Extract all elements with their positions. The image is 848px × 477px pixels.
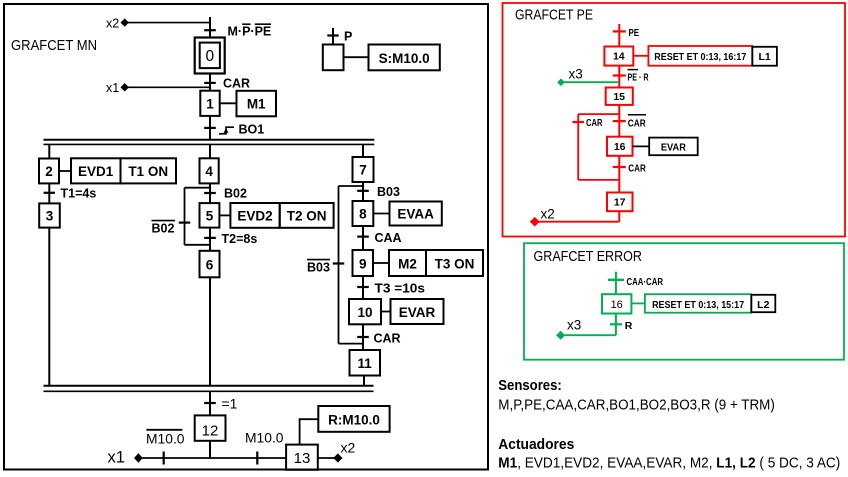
svg-text:B03: B03 xyxy=(307,260,330,274)
action box EVAR xyxy=(391,299,444,324)
text actuator list xyxy=(498,454,840,471)
wire branch1 down to join xyxy=(48,228,50,386)
svg-text:M10.0: M10.0 xyxy=(146,430,185,446)
parallel join double line xyxy=(44,386,374,392)
transition PE xyxy=(613,27,639,39)
svg-text:PE · R: PE · R xyxy=(628,72,649,84)
svg-text:S:M10.0: S:M10.0 xyxy=(379,51,430,66)
transition B03bar xyxy=(307,260,344,275)
OR divergence branch2 xyxy=(185,187,211,189)
transition M10.0 xyxy=(245,429,284,464)
svg-text:T2=8s: T2=8s xyxy=(222,232,258,246)
transition M10.0bar xyxy=(146,430,185,465)
svg-text:11: 11 xyxy=(358,356,373,371)
svg-text:R: R xyxy=(625,320,633,332)
svg-text:BO1: BO1 xyxy=(239,123,265,137)
svg-text:CAR: CAR xyxy=(628,163,646,175)
wire top stub xyxy=(209,17,211,39)
svg-text:EVD2: EVD2 xyxy=(237,209,272,224)
wire stub above P step xyxy=(332,28,334,45)
node x1 exit bottom xyxy=(108,449,287,467)
svg-text:B03: B03 xyxy=(377,185,400,199)
transition P xyxy=(327,29,352,43)
step 16 PE xyxy=(607,137,633,156)
svg-text:9: 9 xyxy=(359,256,367,271)
svg-text:14: 14 xyxy=(613,51,625,63)
svg-text:L2: L2 xyxy=(757,299,769,311)
svg-text:17: 17 xyxy=(614,197,626,209)
action box L1 xyxy=(752,47,777,66)
node x2 exit PE xyxy=(530,207,620,227)
step 10 xyxy=(349,299,381,324)
transition CAR xyxy=(204,76,250,90)
svg-text:M10.0: M10.0 xyxy=(245,429,284,445)
node x3 exit ERROR xyxy=(556,314,616,340)
svg-text:13: 13 xyxy=(294,450,311,467)
transition R xyxy=(610,320,633,332)
wire step5 to EVD2 xyxy=(219,214,230,216)
transition CAR branch3 xyxy=(357,331,400,345)
transition CAA·CAR xyxy=(608,276,663,288)
svg-text:T1 ON: T1 ON xyxy=(128,164,168,179)
transition PEbar·R xyxy=(613,70,649,84)
wire to S:M10.0 xyxy=(344,56,369,58)
node x3 entry xyxy=(557,67,619,87)
node x1 entry xyxy=(106,81,210,95)
wire branch1 drop xyxy=(48,144,50,158)
wire branch2 drop xyxy=(209,144,211,158)
transition =1 xyxy=(204,396,237,412)
bypass B03bar branch xyxy=(339,186,364,344)
svg-text:CAR: CAR xyxy=(586,117,603,129)
svg-text:B02: B02 xyxy=(152,221,175,235)
step 0 (initial) xyxy=(195,38,225,74)
svg-text:M1, EVD1,EVD2, EVAA,EVAR, M2,: M1, EVD1,EVD2, EVAA,EVAR, M2, L1, L2 ( 5… xyxy=(498,454,840,471)
svg-text:M·P·PE: M·P·PE xyxy=(228,24,272,38)
svg-text:=1: =1 xyxy=(222,396,238,412)
transition T2=8s xyxy=(204,232,257,246)
wire branch3 to join xyxy=(363,376,365,386)
transition B02bar xyxy=(152,221,191,236)
action box EVAR PE xyxy=(649,138,698,156)
svg-text:CAR: CAR xyxy=(628,117,646,129)
svg-text:M2: M2 xyxy=(398,256,417,271)
step 11 xyxy=(350,350,381,376)
svg-text:CAR: CAR xyxy=(374,331,401,345)
wire step16 to step17 xyxy=(618,156,620,193)
svg-text:10: 10 xyxy=(357,305,372,320)
svg-text:4: 4 xyxy=(205,164,213,179)
svg-text:x1: x1 xyxy=(108,449,125,467)
wire step2 to step3 xyxy=(48,183,50,203)
transition CAR left xyxy=(572,117,602,129)
wire join to step12 xyxy=(209,391,211,415)
svg-text:GRAFCET MN: GRAFCET MN xyxy=(11,38,97,54)
svg-text:RESET ET 0:13, 16:17: RESET ET 0:13, 16:17 xyxy=(654,51,746,63)
wire PE stub xyxy=(618,24,620,47)
svg-text:GRAFCET ERROR: GRAFCET ERROR xyxy=(534,249,643,265)
wire step16 to RESET ERROR xyxy=(631,302,645,304)
transition B03 xyxy=(357,185,400,199)
step 2 xyxy=(39,159,59,184)
svg-text:CAR: CAR xyxy=(223,76,250,90)
wire step4 down xyxy=(209,183,211,203)
transition BO1 (rising edge) xyxy=(204,123,264,137)
action box T1 ON xyxy=(121,158,177,183)
wire branch2 down to join xyxy=(209,277,211,385)
title GRAFCET PE xyxy=(515,8,593,24)
action box T2 ON xyxy=(280,203,334,228)
svg-text:7: 7 xyxy=(359,163,367,178)
svg-text:x2: x2 xyxy=(341,439,356,455)
svg-text:Actuadores: Actuadores xyxy=(498,436,574,453)
transition CAA xyxy=(357,231,401,245)
step 4 xyxy=(200,158,219,183)
transition B02 xyxy=(204,186,247,200)
wire step8 to EVAA xyxy=(373,213,389,215)
wire step9 to M2 xyxy=(373,262,389,264)
wire step16 to EVAR xyxy=(633,145,650,147)
svg-text:R:M10.0: R:M10.0 xyxy=(328,412,380,427)
wire step14 to RESET xyxy=(633,55,648,57)
step 1 xyxy=(200,91,219,116)
action box EVD1 xyxy=(71,158,121,183)
node x2 entry xyxy=(106,16,210,30)
step 12 xyxy=(195,415,226,440)
svg-text:EVAR: EVAR xyxy=(399,305,436,320)
action box RESET ET 0:13, 16:17 xyxy=(648,46,752,66)
action box M2 xyxy=(389,250,426,276)
wire step9 to step10 xyxy=(362,276,364,299)
svg-text:x2: x2 xyxy=(106,16,119,30)
step 17 xyxy=(607,193,633,212)
svg-text:T1=4s: T1=4s xyxy=(61,187,97,201)
svg-text:x1: x1 xyxy=(106,81,119,95)
svg-text:3: 3 xyxy=(46,209,54,224)
svg-text:2: 2 xyxy=(45,164,53,179)
panel border ERROR xyxy=(524,243,844,360)
svg-text:P: P xyxy=(344,29,352,43)
wire step15 down xyxy=(618,105,620,137)
transition T3=10s xyxy=(357,281,425,295)
step 3 xyxy=(39,203,60,227)
bypass join PE xyxy=(578,179,619,181)
svg-text:B02: B02 xyxy=(224,186,247,200)
wire step7 down xyxy=(362,182,364,201)
step 5 xyxy=(200,203,220,228)
svg-text:T3 =10s: T3 =10s xyxy=(375,281,426,295)
step 8 xyxy=(353,201,374,226)
panel border PE xyxy=(503,3,846,237)
wire step8 to step9 xyxy=(362,226,364,250)
text Sensores xyxy=(498,377,562,394)
transition T1=4s xyxy=(44,187,97,201)
step 13 xyxy=(286,445,318,470)
wire step1 to M1 xyxy=(220,102,237,104)
action box T3 ON xyxy=(426,250,483,276)
svg-text:16: 16 xyxy=(611,299,623,311)
svg-text:8: 8 xyxy=(359,207,367,222)
action box RESET ET 0:13, 15:17 xyxy=(645,294,751,313)
parallel split double line xyxy=(44,140,375,145)
svg-text:EVAA: EVAA xyxy=(397,207,434,222)
transition CARbar xyxy=(613,115,646,130)
svg-text:EVD1: EVD1 xyxy=(78,164,114,179)
step 15 xyxy=(606,88,633,105)
wire step14 to step15 xyxy=(618,66,620,88)
svg-text:CAA·CAR: CAA·CAR xyxy=(627,276,664,288)
title GRAFCET MN xyxy=(11,38,97,54)
wire stub ERROR xyxy=(615,272,617,295)
step 14 xyxy=(604,47,633,66)
OR divergence branch3 xyxy=(339,185,364,187)
bypass B02bar branch xyxy=(185,188,211,245)
action box EVAA xyxy=(390,202,442,226)
svg-text:T3 ON: T3 ON xyxy=(435,256,475,271)
svg-text:GRAFCET PE: GRAFCET PE xyxy=(515,8,593,24)
wire step10 to EVAR xyxy=(381,311,391,313)
transition M·P·PE xyxy=(204,24,271,38)
svg-text:6: 6 xyxy=(206,258,214,273)
transition CAR below 16 xyxy=(613,163,646,175)
svg-text:M1: M1 xyxy=(247,97,266,112)
title GRAFCET ERROR xyxy=(534,249,643,265)
svg-text:EVAR: EVAR xyxy=(661,142,686,154)
svg-text:RESET ET 0:13, 15:17: RESET ET 0:13, 15:17 xyxy=(652,299,744,311)
svg-text:12: 12 xyxy=(202,422,219,439)
action box R:M10.0 xyxy=(300,406,390,445)
wire branch3 drop xyxy=(362,144,364,157)
step 16 ERROR xyxy=(602,294,631,313)
svg-text:CAA: CAA xyxy=(375,231,402,245)
wire step2 to EVD1 xyxy=(59,170,71,172)
text Actuadores xyxy=(498,436,574,453)
node x2 exit bottom xyxy=(318,439,356,462)
svg-text:M,P,PE,CAA,CAR,BO1,BO2,BO3,R (: M,P,PE,CAA,CAR,BO1,BO2,BO3,R (9 + TRM) xyxy=(498,397,775,414)
OR divergence PE xyxy=(578,113,619,115)
svg-text:Sensores:: Sensores: xyxy=(498,377,562,394)
step 7 xyxy=(353,157,374,182)
wire step0 to step1 xyxy=(209,74,211,91)
step 6 xyxy=(200,251,220,277)
svg-text:PE: PE xyxy=(629,27,640,39)
step (unnumbered) xyxy=(323,45,344,71)
action box L2 xyxy=(751,295,775,312)
svg-text:5: 5 xyxy=(206,209,214,224)
text sensor list xyxy=(498,397,775,414)
left branch wire PE xyxy=(577,114,579,180)
wire step10 to step11 xyxy=(362,324,364,350)
svg-text:x3: x3 xyxy=(569,67,583,82)
action box S:M10.0 xyxy=(369,45,440,71)
svg-text:0: 0 xyxy=(205,48,214,65)
step 9 xyxy=(353,250,374,276)
svg-text:T2 ON: T2 ON xyxy=(287,209,327,224)
svg-text:L1: L1 xyxy=(758,51,770,63)
wire step12 down xyxy=(209,441,211,458)
wire step5 to step6 xyxy=(209,228,211,251)
wire step1 down xyxy=(209,116,211,140)
action box M1 xyxy=(237,91,277,117)
svg-text:15: 15 xyxy=(613,91,625,103)
svg-text:x3: x3 xyxy=(567,318,581,333)
action box EVD2 xyxy=(230,203,279,228)
panel border MN xyxy=(4,4,488,470)
svg-text:16: 16 xyxy=(614,141,626,153)
svg-text:x2: x2 xyxy=(541,207,555,222)
svg-text:1: 1 xyxy=(206,97,214,112)
